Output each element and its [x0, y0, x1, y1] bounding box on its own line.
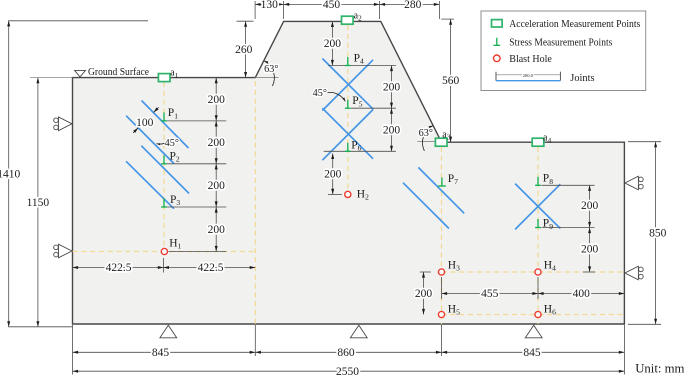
svg-text:Unit: mm: Unit: mm [635, 360, 684, 375]
svg-text:200: 200 [383, 124, 401, 136]
svg-text:850: 850 [649, 228, 667, 240]
svg-text:200: 200 [581, 243, 599, 255]
svg-text:200: 200 [208, 224, 226, 236]
svg-text:860: 860 [337, 347, 355, 359]
svg-text:1410: 1410 [0, 168, 20, 180]
svg-text:200: 200 [208, 137, 226, 149]
svg-text:422.5: 422.5 [106, 262, 132, 274]
svg-text:Stress Measurement Points: Stress Measurement Points [509, 37, 612, 49]
svg-text:1150: 1150 [27, 197, 50, 209]
svg-text:2550: 2550 [336, 366, 359, 377]
svg-text:200: 200 [415, 288, 433, 300]
svg-text:200: 200 [383, 81, 401, 93]
svg-text:400: 400 [573, 288, 591, 300]
svg-text:200: 200 [208, 180, 226, 192]
svg-text:560: 560 [442, 75, 460, 87]
svg-text:Ground Surface: Ground Surface [88, 66, 149, 78]
svg-text:63°: 63° [264, 64, 278, 75]
svg-text:200: 200 [324, 169, 342, 181]
svg-text:200: 200 [208, 94, 226, 106]
svg-text:200: 200 [324, 38, 342, 50]
svg-text:Joints: Joints [570, 72, 594, 84]
svg-text:200.0: 200.0 [523, 73, 534, 78]
svg-text:450: 450 [323, 0, 341, 11]
svg-text:100: 100 [136, 117, 154, 129]
svg-text:200: 200 [581, 200, 599, 212]
svg-text:845: 845 [152, 347, 170, 359]
svg-text:Acceleration Measurement Point: Acceleration Measurement Points [509, 18, 640, 30]
svg-text:45°: 45° [313, 88, 327, 99]
svg-text:422.5: 422.5 [198, 262, 224, 274]
svg-text:280: 280 [404, 0, 422, 11]
svg-text:Blast Hole: Blast Hole [509, 53, 552, 65]
svg-text:260: 260 [235, 44, 253, 56]
svg-text:845: 845 [523, 347, 541, 359]
svg-text:455: 455 [481, 288, 499, 300]
svg-text:45°: 45° [165, 138, 179, 149]
svg-text:63°: 63° [419, 128, 433, 139]
svg-text:130: 130 [261, 0, 279, 11]
